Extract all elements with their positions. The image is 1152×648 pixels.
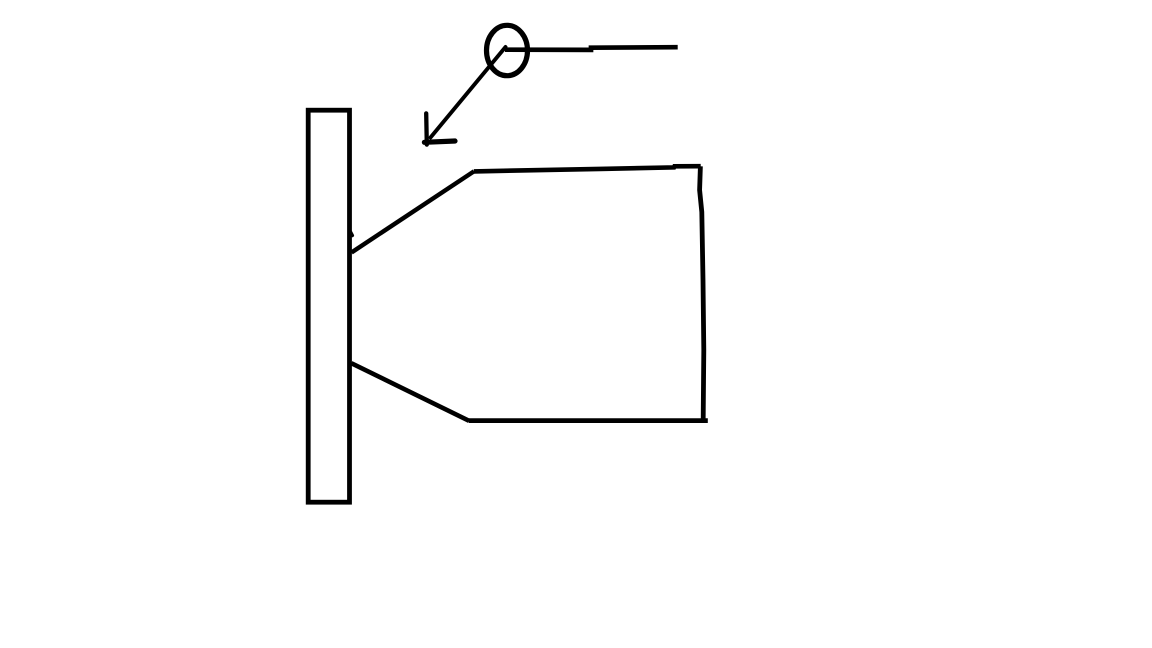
funnel right edge — [700, 166, 704, 419]
leader line (horizontal) — [505, 47, 678, 50]
arrowhead horizontal barb — [424, 141, 455, 142]
plate rectangle — [308, 110, 349, 502]
funnel bottom edge — [469, 418, 708, 423]
tick on plate edge — [350, 232, 352, 236]
funnel top edge — [474, 166, 701, 171]
funnel lower diagonal — [351, 363, 469, 421]
callout circle — [487, 25, 528, 75]
arrowhead vertical barb — [424, 113, 429, 144]
funnel upper diagonal — [352, 171, 475, 252]
arrow shaft (diagonal) — [431, 47, 506, 138]
